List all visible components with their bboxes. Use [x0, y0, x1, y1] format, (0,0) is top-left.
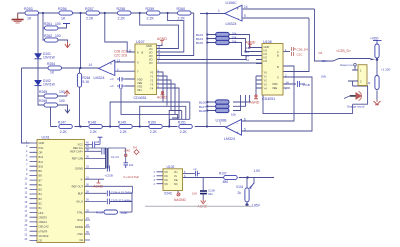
svg-text:AGND: AGND — [157, 37, 167, 41]
connector JP1 — [348, 65, 371, 86]
svg-text:HbF: HbF — [39, 211, 44, 215]
svg-text:6: 6 — [244, 118, 246, 122]
svg-text:2.2K: 2.2K — [120, 130, 128, 134]
svg-text:14: 14 — [244, 5, 248, 9]
svg-text:MODE: MODE — [75, 225, 83, 229]
svg-text:AGND: AGND — [246, 41, 256, 45]
svg-text:VDD: VDD — [272, 82, 278, 86]
svg-text:Y2: Y2 — [150, 79, 154, 83]
resistor R254 — [47, 62, 62, 75]
dark cap bus — [106, 148, 108, 169]
svg-text:R260: R260 — [177, 7, 186, 11]
resistor R259 — [146, 7, 161, 21]
svg-text:OSC: OSC — [77, 232, 83, 236]
svg-text:B7: B7 — [39, 178, 43, 182]
svg-text:VbI-BUZ: VbI-BUZ — [39, 234, 49, 238]
wire diode branch x=38 — [37, 13, 39, 96]
svg-text:CE: CE — [79, 238, 83, 242]
svg-text:100: 100 — [59, 90, 65, 94]
svg-text:512-4MHz: 512-4MHz — [119, 199, 133, 203]
AGND U101 (red) — [93, 180, 103, 189]
AGND U108 top left (red) — [246, 41, 256, 48]
resistor trio lower BL06 — [199, 100, 229, 105]
svg-text:B9: B9 — [39, 169, 43, 173]
svg-text:7: 7 — [220, 122, 222, 126]
svg-text:R266: R266 — [39, 99, 47, 103]
IC U102 reference — [154, 165, 187, 196]
svg-text:Vin: Vin — [174, 171, 178, 174]
red mark XTAL — [133, 146, 139, 155]
svg-text:INH: INH — [137, 88, 142, 92]
svg-text:Y0: Y0 — [264, 71, 268, 75]
svg-text:CREF2: CREF2 — [39, 215, 48, 219]
capacitor on U102 pin1 — [193, 167, 200, 176]
svg-text:10k: 10k — [231, 113, 236, 117]
svg-text:1K: 1K — [61, 17, 66, 21]
svg-text:10V/1W: 10V/1W — [43, 83, 56, 87]
wire staircase C — [157, 13, 194, 56]
svg-text:B3: B3 — [39, 197, 43, 201]
wire staircase A — [140, 13, 179, 49]
svg-text:Y1: Y1 — [264, 75, 268, 79]
svg-text:LM324: LM324 — [94, 76, 105, 80]
svg-text:XTAL: XTAL — [77, 210, 84, 214]
svg-text:U102: U102 — [167, 165, 175, 169]
svg-text:B1: B1 — [39, 206, 43, 210]
svg-text:NC: NC — [174, 183, 178, 186]
wire R254 row y=68 — [22, 67, 99, 69]
svg-text:B6: B6 — [39, 183, 43, 187]
probe arrow symbol — [350, 91, 362, 100]
svg-text:+1 200: +1 200 — [381, 68, 391, 72]
svg-text:V-: V- — [81, 177, 84, 181]
wire LED loop — [263, 81, 368, 114]
wire left bus x=21.5 — [22, 68, 30, 143]
ground red bottom right — [374, 100, 381, 105]
resistor RT2 vertical — [375, 68, 391, 90]
svg-text:D4: D4 — [133, 146, 137, 150]
svg-text:NC: NC — [165, 183, 169, 186]
svg-text:+C: +C — [110, 77, 114, 81]
branch red label and cap 104 — [108, 148, 134, 168]
wire staircase B — [157, 13, 184, 52]
svg-text:10V/1W: 10V/1W — [43, 56, 56, 60]
svg-text:CE: CE — [39, 239, 43, 243]
resistor R260 — [177, 7, 192, 21]
svg-text:K+10-0.5uF: K+10-0.5uF — [124, 175, 140, 179]
svg-text:2.2K: 2.2K — [178, 17, 186, 21]
resistor R266 — [39, 99, 65, 107]
svg-text:C2B_D4: C2B_D4 — [297, 48, 309, 52]
capacitor C10B — [105, 166, 113, 178]
wire U101 right pin wires — [110, 193, 132, 212]
wire U102 pin2 to R107 — [183, 177, 275, 179]
resistor trio lower BL07 — [199, 104, 229, 109]
wire R265 row — [38, 95, 67, 97]
resistor trio upper BL03 — [196, 32, 237, 37]
svg-text:2.2K: 2.2K — [118, 17, 126, 21]
svg-text:R103: R103 — [96, 211, 104, 215]
svg-text:B2: B2 — [39, 202, 43, 206]
svg-text:2.2K: 2.2K — [180, 130, 188, 134]
svg-text:R258: R258 — [117, 7, 126, 11]
AGND U107 bottom (red) — [157, 91, 167, 99]
svg-text:1: 1 — [218, 9, 220, 13]
svg-text:I/O: I/O — [264, 48, 267, 52]
svg-text:1.5V: 1.5V — [254, 169, 261, 173]
svg-text:<C2B_D>: <C2B_D> — [336, 49, 351, 53]
svg-text:100: 100 — [59, 99, 65, 103]
svg-text:OE: OE — [174, 179, 178, 182]
svg-text:CD4051: CD4051 — [262, 97, 275, 101]
svg-text:REF CAP+: REF CAP+ — [70, 150, 83, 154]
svg-text:I/O: I/O — [264, 55, 267, 59]
wire net D down to thermistor — [315, 9, 371, 61]
svg-text:GND: GND — [39, 141, 45, 145]
arrow down blue (R266) — [65, 108, 70, 113]
resistor R107 — [219, 172, 237, 184]
svg-text:2.2K: 2.2K — [86, 17, 94, 21]
wire R262 right — [58, 40, 68, 42]
wire net C down to U108 — [283, 18, 309, 72]
svg-text:POL: POL — [39, 146, 45, 150]
wire trio upper staircases — [229, 35, 262, 56]
svg-text:+C: +C — [110, 84, 114, 88]
resistor R253 — [24, 7, 39, 21]
svg-text:B: B — [277, 54, 279, 58]
svg-text:B4: B4 — [39, 192, 43, 196]
svg-text:R262: R262 — [44, 34, 52, 38]
wire U108 VEE stub — [283, 87, 290, 89]
resistor R264 vertical — [77, 73, 90, 87]
svg-text:+: + — [237, 7, 240, 12]
svg-text:+VDD: +VDD — [370, 37, 379, 41]
wire R261 R262 left bus x=43 — [43, 13, 45, 40]
svg-text:C105: C105 — [111, 199, 118, 203]
svg-text:Y4: Y4 — [150, 87, 154, 91]
power T bar node — [63, 23, 70, 26]
svg-text:R256: R256 — [58, 7, 67, 11]
svg-text:5: 5 — [244, 128, 246, 132]
svg-text:REF OUT: REF OUT — [72, 185, 84, 189]
capacitor C106 polarized — [200, 189, 215, 197]
svg-text:B10: B10 — [39, 164, 44, 168]
wire R266 row — [38, 96, 68, 108]
arrowhead into thermistor junction — [371, 59, 376, 61]
wire lower net2 — [140, 95, 246, 127]
svg-text:B11: B11 — [39, 160, 44, 164]
svg-text:Y: Y — [137, 70, 139, 74]
resistor trio upper BL04 — [196, 36, 237, 41]
svg-text:10k: 10k — [232, 40, 237, 44]
svg-text:VCC: VCC — [78, 143, 84, 147]
svg-text:AGND: AGND — [157, 96, 167, 100]
svg-text:U108: U108 — [263, 40, 272, 44]
capacitor C104 — [107, 190, 132, 196]
svg-text:5.1K: 5.1K — [83, 80, 91, 84]
svg-text:R149: R149 — [118, 121, 126, 125]
resistor R109 — [96, 210, 128, 215]
svg-text:1.85V: 1.85V — [252, 204, 261, 208]
svg-text:2.2K: 2.2K — [90, 130, 98, 134]
svg-text:B0+: B0+ — [322, 59, 328, 63]
svg-text:C1-C3: C1-C3 — [111, 155, 119, 159]
svg-text:I/O: I/O — [149, 58, 152, 62]
svg-text:390K: 390K — [121, 211, 128, 215]
wire U102 bottom pin — [177, 191, 179, 194]
wire U107 pin to U108 pin row59 — [157, 56, 247, 60]
resistor RT1 vertical — [375, 44, 379, 58]
wire R261 right to T — [58, 24, 67, 28]
svg-text:U101: U101 — [42, 136, 50, 140]
gray bottom line — [145, 205, 252, 207]
svg-text:R147: R147 — [58, 121, 66, 125]
diode D101 — [35, 52, 56, 60]
svg-text:Y2: Y2 — [264, 79, 268, 83]
power +VDD thermistor top — [370, 37, 382, 41]
svg-text:I/O: I/O — [264, 59, 267, 63]
red caps on U108 pinA — [292, 47, 309, 57]
svg-text:100: 100 — [55, 34, 61, 38]
svg-text:BL08: BL08 — [199, 109, 206, 113]
svg-text:AGND: AGND — [93, 184, 103, 188]
svg-text:AGND: AGND — [250, 101, 260, 105]
svg-text:IN HI: IN HI — [77, 218, 83, 222]
svg-text:I/O: I/O — [149, 61, 152, 65]
svg-text:CB1CAZ: CB1CAZ — [39, 225, 50, 229]
power arrow up red (R265) — [64, 91, 69, 97]
bottom row resistor R148 — [88, 121, 103, 134]
svg-text:VEE: VEE — [272, 86, 277, 90]
wire op1 in wires right — [243, 9, 315, 18]
resistor trio lower BL08 10k — [199, 108, 236, 116]
svg-text:OR: OR — [39, 151, 43, 155]
svg-text:9: 9 — [244, 14, 246, 18]
potentiometer V101 — [236, 183, 254, 202]
wire pot bottom — [246, 201, 248, 206]
svg-text:LM324: LM324 — [224, 137, 235, 141]
svg-text:+C: +C — [193, 167, 197, 171]
wire top rail y=13 — [18, 12, 194, 14]
svg-text:Y4: Y4 — [264, 87, 268, 91]
svg-text:NC: NC — [165, 175, 169, 178]
resistor R257 — [85, 7, 100, 21]
svg-text:NC: NC — [165, 171, 169, 174]
svg-text:10K: 10K — [192, 192, 197, 196]
wire U108 left lower stubs — [256, 76, 262, 95]
svg-text:Y0: Y0 — [150, 71, 154, 75]
svg-text:R259: R259 — [146, 7, 155, 11]
svg-text:CREF1: CREF1 — [39, 220, 48, 224]
bottom row resistor R149 — [118, 121, 133, 134]
svg-text:104: 104 — [129, 163, 134, 167]
svg-text:h2s: h2s — [208, 192, 213, 196]
red net labels near U107 — [114, 50, 127, 58]
bottom row resistor R151 — [178, 121, 193, 134]
diode D102 — [35, 79, 56, 87]
svg-text:CD4051: CD4051 — [134, 96, 147, 100]
cap texts U107 left — [110, 77, 114, 88]
resistor R262 — [44, 34, 61, 42]
svg-text:B: B — [277, 65, 279, 69]
svg-text:R254: R254 — [47, 62, 55, 66]
wire op1 output to rail — [200, 14, 225, 127]
svg-text:1K: 1K — [27, 17, 32, 21]
svg-text:C8: C8 — [96, 140, 100, 144]
red ground arrow below C106 — [198, 200, 208, 209]
svg-text:1K: 1K — [50, 71, 55, 75]
svg-text:Orange round: Orange round — [347, 104, 365, 108]
svg-text:I/O: I/O — [149, 54, 152, 58]
svg-text:14: 14 — [89, 63, 93, 67]
svg-text:R150: R150 — [148, 121, 156, 125]
svg-text:X: X — [137, 61, 139, 65]
IC U108 CD4051 — [246, 40, 289, 101]
wire U102 pin1 cap — [183, 173, 195, 175]
svg-text:B: B — [142, 51, 144, 55]
wire op2 inputs right — [242, 66, 312, 131]
capacitor cluster U107 left — [117, 77, 125, 89]
svg-text:U106B: U106B — [216, 118, 228, 122]
svg-text:R151: R151 — [178, 121, 186, 125]
svg-text:X: X — [277, 76, 279, 80]
wire C106 vertical — [202, 178, 204, 200]
svg-text:I/O: I/O — [264, 52, 267, 56]
svg-text:V101: V101 — [236, 185, 244, 189]
svg-text:J1: J1 — [368, 81, 371, 85]
svg-text:4.19.2MHz: 4.19.2MHz — [119, 190, 133, 194]
svg-text:10K0: 10K0 — [124, 149, 131, 153]
IC U101 ADC — [25, 136, 133, 243]
resistor trio upper BL05 — [196, 40, 237, 45]
svg-text:REF CAB: REF CAB — [72, 157, 84, 161]
op-amp U106C — [218, 1, 248, 26]
wire U107 pin to U108 pin row63 — [157, 62, 263, 64]
svg-text:BL05: BL05 — [196, 41, 203, 45]
svg-text:2.2K: 2.2K — [147, 17, 155, 21]
svg-text:+V1B: +V1B — [303, 83, 310, 87]
svg-text:C2C 2C8: C2C 2C8 — [114, 54, 127, 58]
wire trio upper left stubs — [207, 35, 215, 43]
wire R264 stubs — [79, 68, 81, 127]
svg-text:DGND: DGND — [75, 167, 83, 171]
svg-text:[M]: [M] — [322, 75, 326, 79]
wire thermistor chain — [376, 41, 378, 100]
svg-text:D4: D4 — [319, 51, 323, 55]
wire U108 pinA stub — [283, 51, 290, 53]
svg-text:VEE: VEE — [137, 81, 142, 85]
AGND U107 top (red) — [157, 37, 167, 44]
svg-text:ItTWTR: ItTWTR — [39, 229, 48, 233]
svg-text:R265: R265 — [39, 90, 47, 94]
svg-text:12: 12 — [246, 58, 250, 62]
svg-text:B8: B8 — [39, 174, 43, 178]
wire op1 inputs to U107 — [115, 62, 135, 71]
wire x=80.5 from top rail to R254 — [80, 13, 82, 68]
svg-text:A: A — [277, 50, 279, 54]
ground GND1 top left (red) — [12, 13, 24, 23]
IC U107 CD4051 — [117, 40, 179, 118]
svg-text:14: 14 — [286, 80, 290, 84]
svg-text:LM324: LM324 — [226, 22, 237, 26]
svg-text:4B0: 4B0 — [223, 180, 229, 184]
svg-text:R261: R261 — [44, 22, 52, 26]
svg-text:NAGND: NAGND — [174, 198, 187, 202]
svg-text:I/O: I/O — [149, 51, 152, 55]
wire lower net4 — [121, 88, 178, 119]
svg-text:A: A — [137, 51, 139, 55]
wire U107 left lower stubs — [125, 79, 135, 86]
svg-text:U106C: U106C — [226, 1, 238, 5]
wire down from R266 to bottom row — [50, 105, 52, 127]
resistor R261 — [44, 22, 61, 30]
svg-text:Green rou: Green rou — [340, 63, 353, 67]
svg-text:C104: C104 — [111, 190, 118, 194]
svg-text:Y1: Y1 — [150, 75, 154, 79]
resistor R258 — [117, 7, 132, 21]
wire lower net3 — [169, 95, 240, 127]
svg-text:B5: B5 — [39, 188, 43, 192]
svg-text:2k: 2k — [238, 191, 242, 195]
capacitor C105 — [107, 199, 132, 205]
svg-text:11: 11 — [129, 48, 132, 52]
wire U108 VDD stub — [283, 83, 305, 85]
cap on U108 VDD — [298, 81, 310, 87]
svg-text:BUF: BUF — [78, 192, 84, 196]
svg-text:Y3: Y3 — [150, 83, 154, 87]
svg-text:2.2K: 2.2K — [150, 130, 158, 134]
wire staircase D to U107 pin — [105, 13, 135, 52]
capacitor C109 — [102, 149, 119, 160]
svg-text:Y3: Y3 — [264, 83, 268, 87]
svg-text:I/O: I/O — [149, 47, 152, 51]
svg-text:2.2K: 2.2K — [60, 130, 68, 134]
op-amp U106B — [216, 118, 247, 141]
bottom row resistor R147 — [58, 121, 73, 134]
wire bottom resistor row y=126.5 — [51, 126, 226, 128]
op-amp U106D left-facing — [89, 60, 115, 80]
capacitor C108 at U101 VCC — [93, 137, 103, 147]
power arrow down red (R262) — [65, 42, 70, 48]
svg-text:VDD: VDD — [137, 77, 143, 81]
bottom row resistor R150 — [148, 121, 163, 134]
svg-text:R148: R148 — [88, 121, 96, 125]
svg-text:R257: R257 — [85, 7, 94, 11]
svg-text:X24C: X24C — [164, 192, 173, 196]
wire pot top and junction — [247, 178, 254, 189]
svg-text:GND: GND — [264, 45, 270, 49]
svg-text:13: 13 — [117, 58, 121, 62]
svg-text:U107: U107 — [136, 40, 145, 44]
svg-text:B12: B12 — [39, 155, 44, 159]
red ground U102 bottom — [174, 193, 187, 202]
svg-text:100: 100 — [55, 22, 61, 26]
svg-text:IN LO: IN LO — [76, 200, 83, 204]
no-connect circle pin1 — [354, 64, 357, 67]
wire connector pin1 — [355, 66, 358, 70]
resistor R256 — [58, 7, 73, 21]
svg-text:NC: NC — [165, 179, 169, 182]
svg-text:C2C: C2C — [297, 53, 304, 57]
svg-text:+: + — [236, 130, 239, 135]
svg-text:R253: R253 — [24, 7, 33, 11]
resistor R265 — [39, 90, 65, 98]
svg-text:R107: R107 — [219, 172, 227, 176]
wire lower net1 — [110, 95, 250, 127]
AGND U108 bottom (red) — [250, 95, 260, 105]
svg-text:+C10B: +C10B — [105, 174, 113, 178]
